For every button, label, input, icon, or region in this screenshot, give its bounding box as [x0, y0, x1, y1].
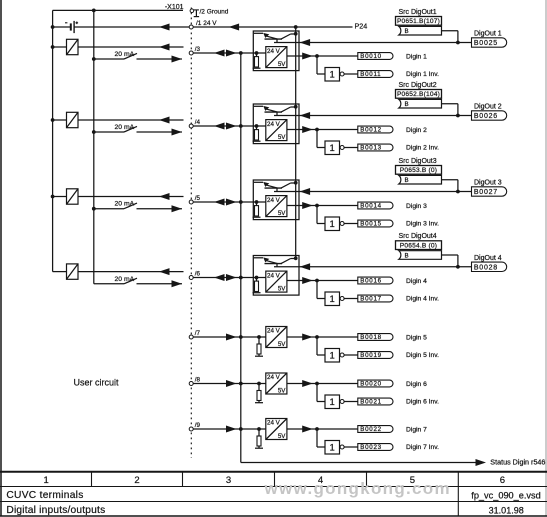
svg-text:24 V: 24 V	[267, 328, 281, 335]
svg-text:B0014: B0014	[360, 203, 382, 210]
svg-text:/4: /4	[195, 119, 201, 126]
svg-text:1: 1	[330, 397, 335, 408]
svg-text:31.01.98: 31.01.98	[489, 505, 524, 515]
svg-text:CUVC terminals: CUVC terminals	[6, 490, 83, 501]
svg-text:DigOut 4: DigOut 4	[474, 255, 502, 262]
svg-text:P0651.B(107): P0651.B(107)	[397, 18, 440, 25]
svg-text:2: 2	[134, 475, 139, 486]
svg-text:Digin 2 Inv.: Digin 2 Inv.	[406, 144, 439, 151]
svg-text:/3: /3	[195, 46, 201, 53]
svg-text:fp_vc_090_e.vsd: fp_vc_090_e.vsd	[471, 491, 540, 501]
svg-text:Src DigOut2: Src DigOut2	[399, 82, 437, 89]
svg-text:DigOut 3: DigOut 3	[474, 180, 502, 187]
svg-text:B0021: B0021	[360, 399, 382, 406]
svg-text:5V: 5V	[278, 433, 286, 440]
svg-text:5V: 5V	[278, 341, 286, 348]
svg-text:20 mA: 20 mA	[115, 51, 135, 58]
svg-text:/9: /9	[195, 422, 201, 429]
svg-text:5V: 5V	[278, 210, 286, 217]
svg-text:/8: /8	[195, 377, 201, 384]
svg-text:24 V: 24 V	[267, 121, 281, 128]
svg-text:Status Digin r546: Status Digin r546	[490, 457, 545, 466]
svg-text:1: 1	[330, 219, 335, 230]
svg-text:Digin 7: Digin 7	[406, 426, 427, 433]
svg-text:B0025: B0025	[474, 40, 498, 47]
svg-text:1: 1	[330, 443, 335, 454]
svg-text:1: 1	[44, 475, 49, 486]
svg-text:3: 3	[226, 475, 231, 486]
svg-text:5V: 5V	[278, 61, 286, 68]
svg-text:24 V: 24 V	[267, 374, 281, 381]
svg-text:5V: 5V	[278, 388, 286, 395]
svg-text:24 V: 24 V	[267, 48, 281, 55]
svg-text:1: 1	[330, 351, 335, 362]
svg-text:1: 1	[330, 70, 335, 81]
svg-text:B0016: B0016	[360, 278, 382, 285]
svg-text:B0020: B0020	[360, 381, 382, 388]
svg-text:Digin 1 Inv.: Digin 1 Inv.	[406, 71, 439, 78]
svg-text:Digin 2: Digin 2	[406, 127, 427, 134]
svg-text:/2 Ground: /2 Ground	[200, 8, 229, 15]
svg-text:Digin 4 Inv.: Digin 4 Inv.	[406, 295, 439, 302]
svg-text:24 V: 24 V	[267, 197, 281, 204]
svg-text:B0012: B0012	[360, 127, 382, 134]
svg-text:20 mA: 20 mA	[115, 201, 135, 208]
svg-text:B: B	[405, 177, 409, 184]
svg-text:/7: /7	[195, 330, 201, 337]
svg-text:B0018: B0018	[360, 334, 382, 341]
svg-text:/5: /5	[195, 195, 201, 202]
svg-text:B0015: B0015	[360, 221, 382, 228]
svg-text:User circuit: User circuit	[74, 378, 120, 388]
svg-text:P0654.B (0): P0654.B (0)	[400, 243, 437, 250]
svg-text:Src DigOut4: Src DigOut4	[399, 233, 437, 240]
svg-text:Digital inputs/outputs: Digital inputs/outputs	[6, 505, 105, 516]
svg-text:DigOut 1: DigOut 1	[474, 31, 502, 38]
svg-text:B0019: B0019	[360, 352, 382, 359]
svg-text:P0653.B (0): P0653.B (0)	[400, 167, 437, 174]
svg-text:1: 1	[330, 143, 335, 154]
svg-text:B: B	[405, 252, 409, 259]
svg-text:5V: 5V	[278, 134, 286, 141]
svg-text:24 V: 24 V	[267, 272, 281, 279]
svg-text:Digin 3: Digin 3	[406, 203, 427, 210]
svg-text:B0013: B0013	[360, 145, 382, 152]
svg-text:/6: /6	[195, 271, 201, 278]
svg-text:B: B	[405, 101, 409, 108]
svg-text:-X101: -X101	[165, 4, 184, 11]
svg-text:Digin 6 Inv.: Digin 6 Inv.	[406, 398, 439, 405]
svg-text:P24: P24	[355, 22, 368, 31]
svg-text:Digin 7 Inv.: Digin 7 Inv.	[406, 444, 439, 451]
svg-text:Digin 5: Digin 5	[406, 334, 427, 341]
svg-text:B0026: B0026	[474, 113, 498, 120]
svg-text:B0017: B0017	[360, 296, 382, 303]
svg-text:Digin 4: Digin 4	[406, 278, 427, 285]
svg-text:Digin 1: Digin 1	[406, 53, 427, 60]
svg-text:Digin 3 Inv.: Digin 3 Inv.	[406, 220, 439, 227]
svg-text:20 mA: 20 mA	[115, 124, 135, 131]
svg-text:B0022: B0022	[360, 426, 382, 433]
svg-text:24 V: 24 V	[267, 420, 281, 427]
svg-text:P0652.B(104): P0652.B(104)	[397, 91, 440, 98]
svg-text:www.gongkong.com: www.gongkong.com	[264, 479, 451, 498]
svg-text:B0011: B0011	[360, 71, 381, 78]
svg-text:Src DigOut1: Src DigOut1	[399, 9, 437, 16]
svg-text:B0028: B0028	[474, 264, 498, 271]
svg-text:B: B	[405, 28, 409, 35]
svg-text:/1 24 V: /1 24 V	[196, 20, 217, 27]
svg-text:5V: 5V	[278, 286, 286, 293]
svg-text:6: 6	[500, 475, 505, 486]
svg-text:B0010: B0010	[360, 53, 382, 60]
svg-text:Digin 6: Digin 6	[406, 381, 427, 388]
svg-text:20 mA: 20 mA	[115, 276, 135, 283]
svg-text:Digin 5 Inv.: Digin 5 Inv.	[406, 352, 439, 359]
svg-text:DigOut 2: DigOut 2	[474, 104, 502, 111]
svg-text:1: 1	[330, 294, 335, 305]
svg-text:Src DigOut3: Src DigOut3	[399, 158, 437, 165]
svg-text:B0023: B0023	[360, 444, 382, 451]
svg-text:B0027: B0027	[474, 189, 498, 196]
